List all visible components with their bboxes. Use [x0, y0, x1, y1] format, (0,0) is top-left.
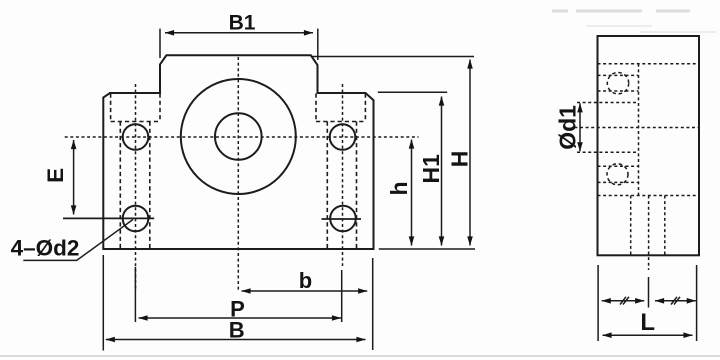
dimension L — [603, 334, 693, 336]
svg-text:Ød1: Ød1 — [554, 105, 580, 150]
svg-text:E: E — [43, 168, 68, 183]
bolt hole bottom-right — [330, 206, 356, 232]
horizontal center line — [65, 136, 419, 138]
faint cropped-text smudge top right — [552, 11, 716, 32]
dimension Ød1 — [579, 103, 581, 151]
dimension P — [139, 317, 342, 319]
bolt hole top-right — [330, 124, 356, 150]
right slot hidden lines — [327, 122, 356, 250]
vertical center line bore — [237, 57, 239, 292]
dimension H — [469, 60, 471, 246]
bearing 2 races — [598, 166, 639, 182]
svg-text:b: b — [299, 268, 312, 293]
right pocket — [316, 94, 365, 122]
svg-text:B: B — [229, 317, 245, 342]
hash mark right — [671, 297, 680, 305]
vertical center line left holes — [135, 84, 137, 290]
bottom extension — [379, 248, 475, 250]
bore outer circle — [181, 79, 296, 194]
d1 bore hidden lines — [577, 103, 639, 153]
L dimension extension lines — [598, 265, 697, 341]
solid line through bottom-left hole — [63, 217, 154, 219]
bolt hole bottom-left — [123, 206, 149, 232]
front view body outline — [103, 55, 373, 249]
side view rectangle — [598, 36, 700, 255]
svg-text:H1: H1 — [418, 154, 444, 184]
half dimension right — [655, 300, 696, 302]
solid line through bottom-right hole — [322, 218, 362, 220]
vertical bore step — [638, 64, 640, 196]
half dimension left — [602, 300, 645, 302]
label 4-Ød2 with leader — [23, 220, 133, 261]
bottom extension lines — [103, 255, 372, 351]
bearing 1 ball — [607, 73, 628, 94]
H top extension — [311, 56, 474, 58]
bolt hole top-left — [123, 124, 149, 150]
vertical center line right holes — [342, 84, 344, 266]
bearing 1 races — [598, 75, 639, 91]
svg-text:4–Ød2: 4–Ød2 — [11, 236, 80, 261]
dimension h — [411, 140, 413, 246]
dimension H1 — [441, 97, 443, 246]
faint bottom rule — [0, 355, 720, 357]
dimension E — [63, 140, 154, 218]
hash mark left — [620, 297, 629, 305]
side view dashed horizontals — [574, 64, 700, 270]
bottom hole hidden verticals — [631, 196, 665, 256]
dimension b — [242, 290, 368, 292]
left slot hidden lines — [120, 122, 150, 250]
svg-text:B1: B1 — [229, 12, 256, 35]
bore inner circle — [215, 113, 262, 160]
hidden lines: pockets and slots — [111, 94, 366, 250]
bearing 2 ball — [607, 164, 628, 185]
side center vertical — [648, 196, 650, 271]
left pocket — [111, 94, 160, 122]
right side dims extension lines — [311, 57, 475, 250]
dimension B1 — [160, 29, 318, 60]
center lines — [65, 57, 419, 292]
svg-text:H: H — [447, 151, 473, 168]
svg-text:h: h — [386, 181, 412, 195]
H1 top extension — [378, 91, 447, 93]
dimension B — [106, 339, 366, 341]
svg-text:L: L — [640, 309, 655, 336]
